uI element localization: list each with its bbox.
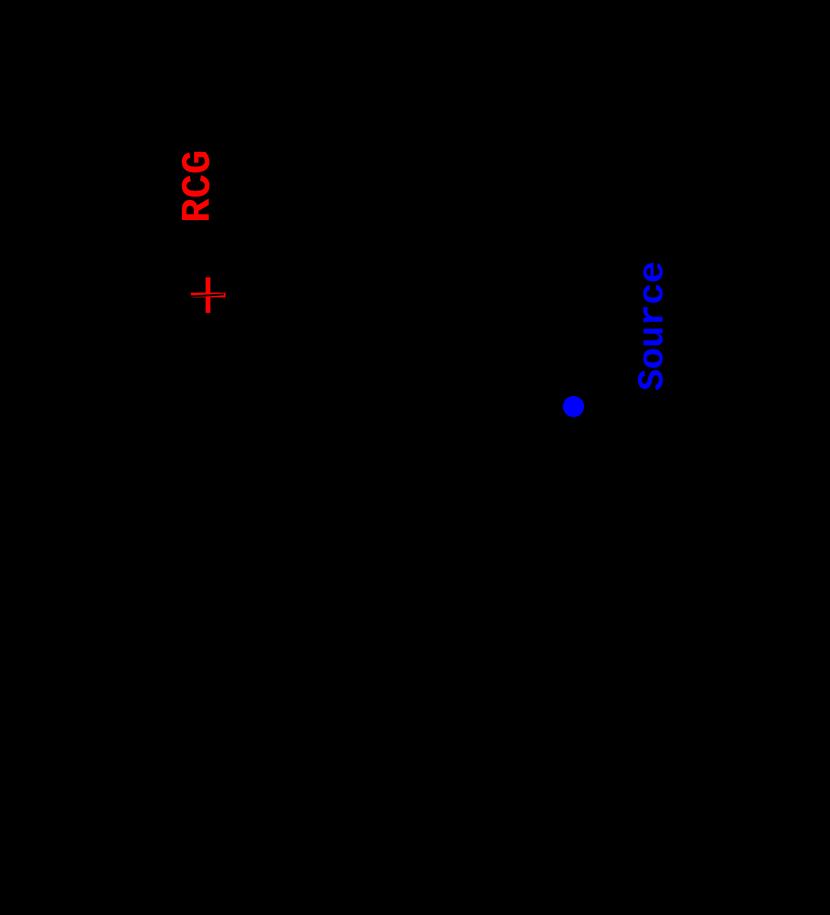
station label RCG (red, rotated 90 deg CCW) (179, 150, 220, 223)
black trace crossing the station marker (186, 294, 224, 296)
source label Source (blue, rotated 90 deg CCW) (635, 262, 672, 391)
